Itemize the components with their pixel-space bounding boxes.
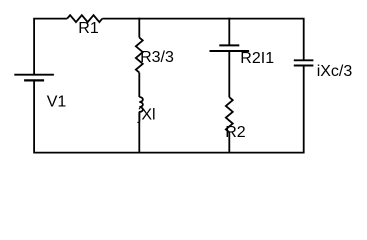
svg-text:V1: V1	[47, 94, 67, 111]
svg-text:iXc/3: iXc/3	[317, 63, 353, 80]
svg-text:R2: R2	[225, 124, 246, 141]
svg-text:R3/3: R3/3	[140, 49, 174, 66]
svg-text:R2I1: R2I1	[240, 50, 274, 67]
svg-text:jXl: jXl	[137, 107, 156, 124]
svg-text:R1: R1	[78, 20, 99, 37]
